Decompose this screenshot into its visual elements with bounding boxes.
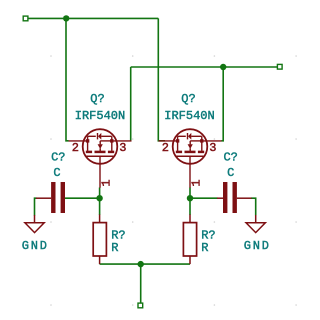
wire Q2 source up: [222, 67, 224, 141]
wire drop to Q1 drain: [66, 18, 69, 140]
svg-text:C?: C?: [51, 151, 65, 165]
resistor R2: [183, 223, 196, 256]
svg-text:3: 3: [119, 141, 126, 155]
R2 pin top: [189, 215, 191, 223]
unconnected square top-left: [23, 16, 28, 21]
wire Q1 gate down: [99, 188, 101, 216]
svg-text:2: 2: [72, 141, 79, 155]
capacitor C2 plate left: [223, 182, 227, 213]
svg-text:GND: GND: [244, 239, 271, 253]
svg-text:IRF540N: IRF540N: [164, 109, 214, 123]
wire bottom stub: [140, 264, 142, 303]
unconnected square bottom: [138, 303, 143, 308]
capacitor C1 pin left: [36, 197, 51, 199]
ground symbol 2 triangle: [246, 223, 265, 233]
junction node gate1/cap1: [96, 195, 102, 201]
wire drop to Q2 drain: [158, 18, 165, 140]
wire top rail A: [28, 17, 158, 19]
svg-text:R: R: [201, 241, 208, 255]
capacitor C2 plate right: [233, 182, 237, 213]
svg-text:C: C: [53, 166, 60, 180]
R1 pin bottom: [99, 256, 101, 264]
junction node B: [220, 64, 226, 70]
wire cap1 left: [35, 198, 37, 215]
svg-text:C: C: [227, 166, 234, 180]
ground symbol 2 stub: [255, 215, 257, 223]
ground symbol 1 triangle: [25, 223, 44, 233]
capacitor C1 plate left: [51, 182, 55, 213]
svg-text:Q?: Q?: [181, 92, 195, 106]
wire Q2 gate down: [189, 188, 191, 216]
svg-text:GND: GND: [22, 239, 49, 253]
capacitor C2 pin right: [237, 197, 252, 199]
capacitor C2 pin left: [217, 197, 223, 199]
capacitor C1 plate right: [61, 182, 65, 213]
svg-text:3: 3: [209, 141, 216, 155]
junction node gate2/cap2: [187, 195, 193, 201]
resistor R1: [93, 223, 106, 256]
junction node A: [63, 15, 69, 21]
R2 pin bottom: [189, 256, 191, 264]
grid dots: [50, 55, 297, 306]
transistor Q1 IRF540N: [69, 129, 132, 188]
svg-text:1: 1: [190, 179, 204, 186]
svg-text:IRF540N: IRF540N: [75, 109, 125, 123]
transistor Q2 IRF540N: [159, 129, 222, 188]
wire rail B: [131, 66, 280, 68]
unconnected square right: [277, 64, 282, 69]
wire bottom rail: [100, 263, 190, 265]
svg-text:C?: C?: [223, 151, 237, 165]
junction node bottom: [138, 261, 144, 267]
wire cap2 left from node: [190, 197, 218, 199]
svg-text:1: 1: [100, 179, 114, 186]
wire Q1 source up: [130, 67, 132, 141]
wire cap1 right to node: [65, 197, 100, 199]
svg-text:2: 2: [162, 141, 169, 155]
svg-text:R: R: [111, 241, 118, 255]
ground symbol 1 stub: [34, 215, 36, 223]
R1 pin top: [99, 215, 101, 223]
svg-text:Q?: Q?: [90, 92, 104, 106]
wire cap2 right to gnd: [251, 198, 256, 215]
